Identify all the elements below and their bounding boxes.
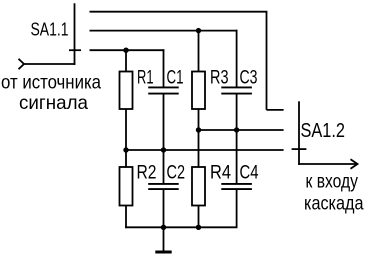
svg-text:каскада: каскада <box>304 193 364 215</box>
wire node row R1C1-bottom / R2C2-top to SA1.2 contact 3 <box>126 149 284 151</box>
node: R1 bottom / R2 top junction <box>123 147 128 152</box>
capacitor C2 <box>148 184 179 189</box>
switch SA1.2 lever <box>298 101 300 165</box>
wire C4 top stem <box>236 130 238 183</box>
svg-text:к входу: к входу <box>306 171 359 193</box>
wire C1 top stem <box>163 49 165 86</box>
node: C1 bottom / C2 top junction <box>161 147 166 152</box>
resistor R1 <box>120 72 133 110</box>
wire ground stem <box>163 227 165 251</box>
svg-text:C3: C3 <box>240 66 258 88</box>
svg-text:от источника: от источника <box>1 71 101 93</box>
resistor R4 <box>192 167 205 206</box>
wire C3 bottom stem <box>236 94 238 130</box>
wire C4 bottom stem <box>236 190 238 227</box>
svg-text:R3: R3 <box>210 66 229 88</box>
wire R4 bottom stem <box>198 206 200 228</box>
output arrow <box>351 159 358 169</box>
capacitor C3 <box>221 87 252 93</box>
svg-text:R4: R4 <box>210 161 231 183</box>
wire R1 bottom stem <box>125 109 127 150</box>
wire input to SA1.1 <box>24 63 75 65</box>
wire R1 top stem <box>125 50 127 72</box>
wire R3 bottom stem <box>198 109 200 130</box>
ground <box>155 251 171 254</box>
svg-text:R2: R2 <box>137 161 157 183</box>
input arrow <box>19 59 25 69</box>
wire contact1 down to SA1.2 <box>266 12 268 110</box>
wire R2 top stem <box>125 150 127 168</box>
svg-text:C4: C4 <box>240 161 259 183</box>
switch SA1.2 contact 1 <box>267 109 284 111</box>
svg-text:C1: C1 <box>167 66 184 88</box>
wire C2 bottom stem <box>163 190 165 227</box>
wire R2 bottom stem <box>125 206 127 229</box>
wire C3 top stem <box>236 30 238 87</box>
node: C3 bottom / C4 top junction <box>234 127 239 132</box>
resistor R3 <box>192 72 205 110</box>
wire C2 top stem <box>163 150 165 183</box>
switch SA1.1 wiper tick <box>69 49 81 51</box>
svg-text:SA1.2: SA1.2 <box>301 120 346 142</box>
node: R4 bottom / ground junction <box>196 225 201 230</box>
wire C1 bottom stem <box>163 94 165 150</box>
wire node row R3C3-bottom / R4C4-top to SA1.2 contact 2 <box>199 129 284 131</box>
svg-text:SA1.1: SA1.1 <box>31 19 69 40</box>
node: contact3 / R1 top junction <box>123 48 128 53</box>
node: contact2 / R3 top junction <box>196 28 201 33</box>
switch SA1.1 lever <box>74 3 76 65</box>
wire ground bus <box>125 226 237 228</box>
svg-text:сигнала: сигнала <box>19 92 88 114</box>
switch SA1.2 wiper tick <box>292 148 307 150</box>
capacitor C1 <box>148 87 179 93</box>
switch SA1.1 contact 2 <box>90 30 238 32</box>
wire output <box>298 163 356 165</box>
capacitor C4 <box>221 184 252 189</box>
node: R3 bottom / R4 top junction <box>196 127 201 132</box>
node: C2 bottom / ground junction <box>161 225 166 230</box>
svg-text:R1: R1 <box>137 66 154 88</box>
wire R4 top stem <box>198 130 200 168</box>
resistor R2 <box>120 167 133 206</box>
switch SA1.1 contact 3 <box>90 49 165 51</box>
svg-text:C2: C2 <box>167 161 186 183</box>
wire R3 top stem <box>198 31 200 72</box>
switch SA1.1 contact 1 <box>90 11 268 13</box>
